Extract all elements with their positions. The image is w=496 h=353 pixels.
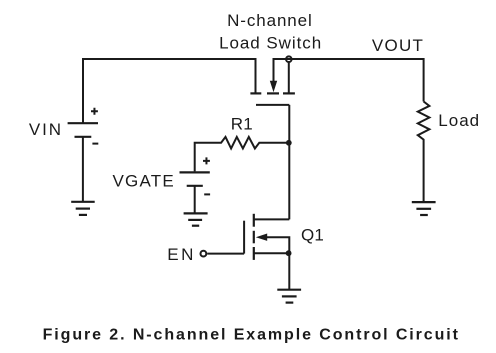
wire top rail left (VIN to switch drain) bbox=[83, 58, 256, 60]
svg-text:EN: EN bbox=[167, 245, 196, 264]
node junction R1 / gate wire bbox=[286, 140, 292, 146]
svg-text:Load: Load bbox=[438, 111, 480, 130]
svg-text:VOUT: VOUT bbox=[372, 36, 424, 55]
ground (VIN) bbox=[71, 202, 95, 215]
transistor: N-channel load switch pass FET bbox=[250, 58, 295, 105]
svg-text:VGATE: VGATE bbox=[113, 171, 175, 190]
wire Q1 source to ground bbox=[288, 253, 290, 290]
ground (Q1 source) bbox=[277, 290, 301, 303]
wire Load drop bbox=[423, 58, 425, 102]
wire gate of switch down to Q1 drain bbox=[288, 105, 290, 219]
ground (VGATE) bbox=[184, 213, 208, 225]
svg-text:Figure 2. N-channel Example Co: Figure 2. N-channel Example Control Circ… bbox=[43, 326, 460, 343]
ground (Load) bbox=[412, 202, 436, 215]
svg-text:R1: R1 bbox=[231, 115, 253, 134]
node: VOUT terminal circle bbox=[286, 56, 292, 62]
svg-text:Q1: Q1 bbox=[301, 225, 324, 244]
battery VGATE bbox=[113, 157, 211, 213]
battery VIN bbox=[29, 108, 98, 202]
resistor R1 bbox=[195, 115, 289, 172]
wire EN to Q1 gate bbox=[207, 253, 244, 255]
svg-text:Load Switch: Load Switch bbox=[219, 34, 322, 53]
label: N-channel Load Switch bbox=[219, 11, 322, 53]
node junction Q1 source / ground wire bbox=[286, 250, 292, 256]
wire top rail right (switch source to VOUT/Load) bbox=[274, 58, 424, 60]
svg-text:N-channel: N-channel bbox=[227, 11, 313, 30]
wire VIN drop bbox=[82, 58, 84, 123]
resistor Load bbox=[418, 102, 480, 203]
transistor Q1 (N-channel control FET) bbox=[244, 214, 324, 260]
terminal EN bbox=[167, 245, 206, 264]
svg-text:VIN: VIN bbox=[29, 120, 63, 139]
